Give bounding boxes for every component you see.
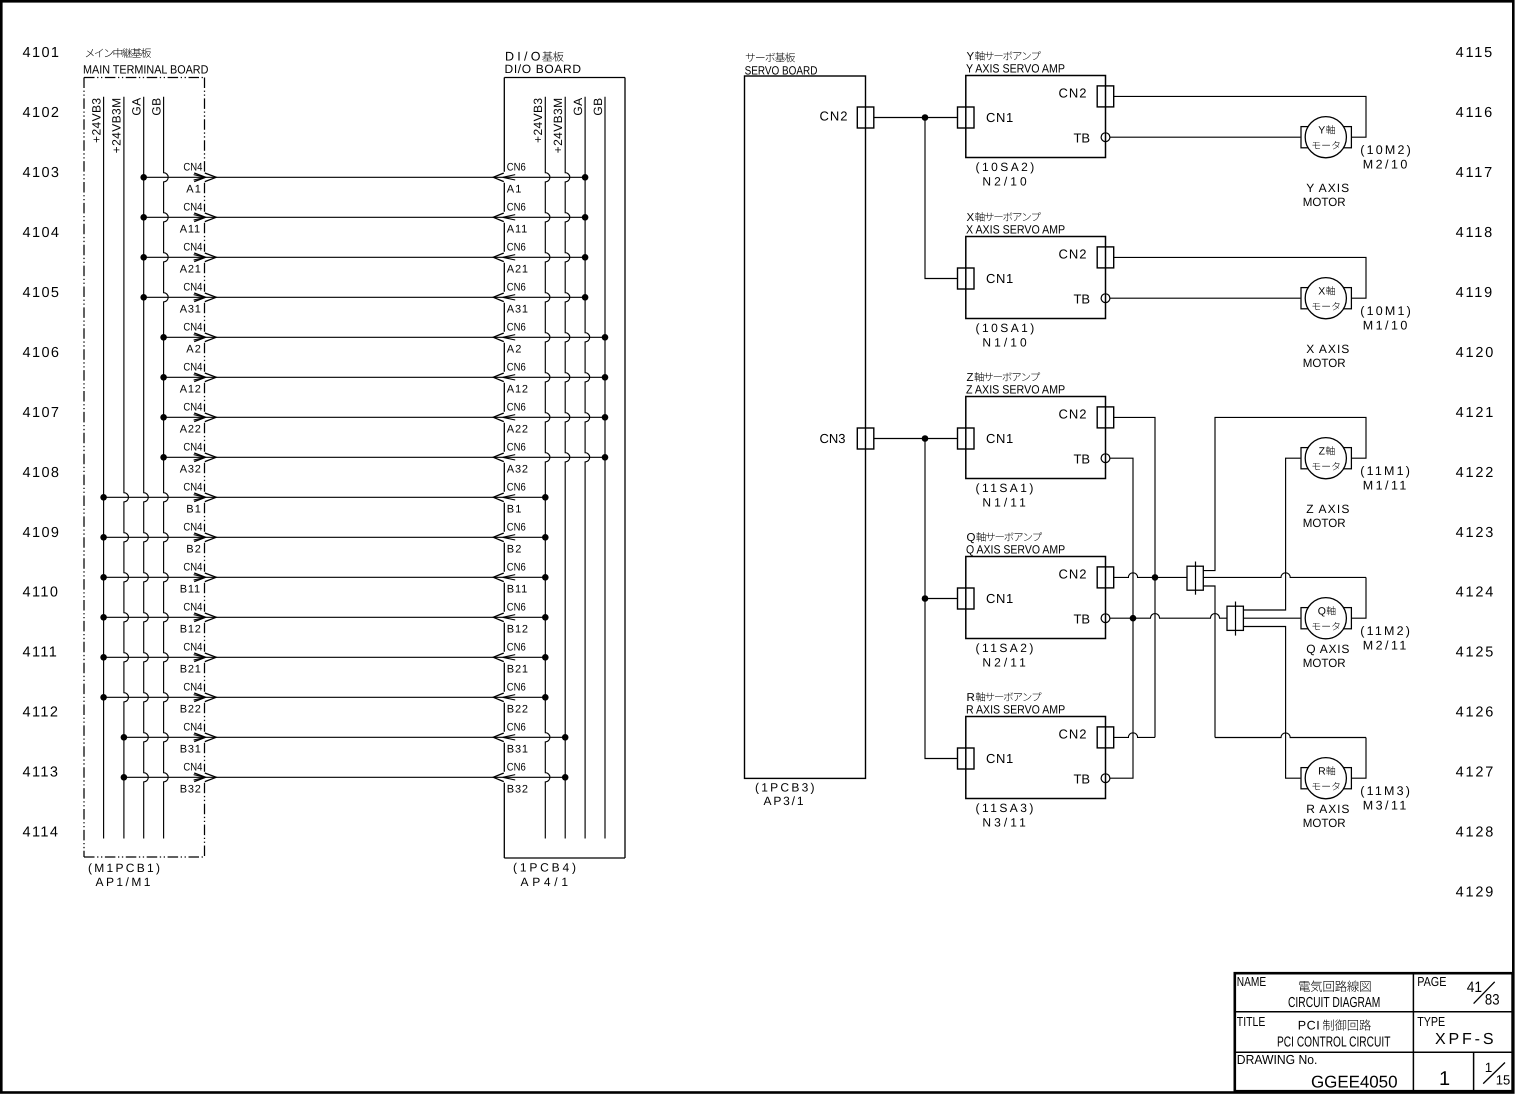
svg-text:B11: B11 [507, 584, 528, 596]
svg-text:4120: 4120 [1456, 345, 1496, 361]
svg-text:CN6: CN6 [507, 682, 526, 694]
svg-text:4113: 4113 [23, 765, 60, 781]
svg-text:4125: 4125 [1456, 645, 1496, 661]
svg-text:MOTOR: MOTOR [1303, 356, 1346, 370]
svg-text:(10M2): (10M2) [1360, 143, 1413, 157]
svg-text:M2/10: M2/10 [1363, 158, 1410, 172]
svg-text:CN1: CN1 [986, 431, 1014, 446]
svg-text:CN4: CN4 [183, 362, 202, 374]
svg-text:M1/11: M1/11 [1363, 479, 1409, 493]
svg-text:CN4: CN4 [183, 562, 202, 574]
svg-text:R: R [1318, 765, 1326, 777]
svg-text:CN2: CN2 [1059, 86, 1088, 101]
svg-text:Q AXIS SERVO AMP: Q AXIS SERVO AMP [966, 542, 1065, 556]
svg-text:CN6: CN6 [507, 282, 526, 294]
svg-text:83: 83 [1485, 991, 1500, 1008]
svg-text:TB: TB [1074, 131, 1090, 146]
svg-text:M3/11: M3/11 [1363, 799, 1409, 813]
svg-text:15: 15 [1496, 1072, 1511, 1087]
svg-text:Y AXIS: Y AXIS [1306, 181, 1350, 195]
svg-text:TB: TB [1074, 452, 1090, 467]
svg-text:MOTOR: MOTOR [1303, 516, 1346, 530]
svg-text:B31: B31 [507, 744, 529, 756]
svg-text:MAIN TERMINAL BOARD: MAIN TERMINAL BOARD [83, 63, 209, 77]
svg-text:CN6: CN6 [507, 442, 526, 454]
svg-text:DRAWING No.: DRAWING No. [1237, 1052, 1318, 1067]
svg-text:AP3/1: AP3/1 [764, 794, 806, 808]
svg-text:Q: Q [1318, 605, 1326, 617]
svg-text:CN6: CN6 [507, 162, 526, 174]
svg-text:4104: 4104 [23, 225, 61, 241]
svg-text:N1/10: N1/10 [982, 335, 1029, 349]
svg-text:4123: 4123 [1456, 525, 1496, 541]
svg-text:CN4: CN4 [183, 322, 202, 334]
svg-text:PCI: PCI [1298, 1019, 1321, 1033]
svg-text:A11: A11 [507, 224, 528, 236]
svg-text:+24VB3M: +24VB3M [110, 98, 124, 154]
svg-text:CN4: CN4 [183, 162, 202, 174]
svg-text:(11SA2): (11SA2) [976, 641, 1036, 655]
svg-text:4108: 4108 [23, 465, 61, 481]
svg-text:B11: B11 [180, 584, 201, 596]
svg-text:GB: GB [149, 98, 163, 116]
svg-text:B2: B2 [507, 544, 523, 556]
svg-text:CN2: CN2 [820, 109, 849, 124]
svg-text:(10SA1): (10SA1) [976, 321, 1037, 335]
svg-text:A11: A11 [180, 224, 201, 236]
svg-text:TYPE: TYPE [1417, 1014, 1445, 1029]
svg-text:X AXIS SERVO AMP: X AXIS SERVO AMP [966, 222, 1065, 236]
svg-text:A1: A1 [186, 184, 202, 196]
svg-text:+24VB3M: +24VB3M [551, 98, 565, 154]
svg-text:4118: 4118 [1456, 225, 1494, 241]
svg-text:B21: B21 [507, 664, 529, 676]
svg-text:CN1: CN1 [986, 751, 1014, 766]
svg-text:B21: B21 [180, 664, 202, 676]
svg-text:X AXIS: X AXIS [1306, 342, 1350, 356]
svg-text:(11SA3): (11SA3) [976, 801, 1036, 815]
svg-text:CN2: CN2 [1059, 567, 1088, 582]
svg-text:4115: 4115 [1456, 45, 1494, 61]
svg-text:A32: A32 [507, 464, 529, 476]
svg-text:MOTOR: MOTOR [1303, 816, 1346, 830]
svg-text:B32: B32 [180, 784, 202, 796]
svg-text:4101: 4101 [23, 45, 61, 61]
svg-text:CN4: CN4 [183, 442, 202, 454]
svg-text:B1: B1 [186, 504, 202, 516]
svg-text:GB: GB [591, 98, 605, 116]
svg-text:+24VB3: +24VB3 [531, 98, 545, 143]
svg-text:CN6: CN6 [507, 402, 526, 414]
svg-text:4126: 4126 [1456, 705, 1496, 721]
svg-text:XPF-S: XPF-S [1435, 1031, 1496, 1048]
svg-text:(11SA1): (11SA1) [976, 481, 1036, 495]
svg-text:PCI CONTROL CIRCUIT: PCI CONTROL CIRCUIT [1277, 1035, 1391, 1051]
svg-text:CN1: CN1 [986, 591, 1014, 606]
svg-text:CN4: CN4 [183, 762, 202, 774]
svg-text:4110: 4110 [23, 585, 60, 601]
svg-text:A2: A2 [186, 344, 202, 356]
svg-text:A22: A22 [507, 424, 529, 436]
svg-text:CN4: CN4 [183, 202, 202, 214]
svg-text:4102: 4102 [23, 105, 61, 121]
svg-text:CN4: CN4 [183, 402, 202, 414]
svg-text:A1: A1 [507, 184, 523, 196]
svg-text:A21: A21 [180, 264, 202, 276]
svg-text:4124: 4124 [1456, 585, 1496, 601]
svg-text:A21: A21 [507, 264, 529, 276]
svg-text:4105: 4105 [23, 285, 61, 301]
svg-text:1: 1 [1485, 1060, 1493, 1075]
svg-text:CN4: CN4 [183, 482, 202, 494]
svg-text:TITLE: TITLE [1237, 1014, 1266, 1029]
svg-text:CN6: CN6 [507, 522, 526, 534]
svg-text:CN4: CN4 [183, 522, 202, 534]
svg-text:(10SA2): (10SA2) [976, 160, 1037, 174]
svg-text:+24VB3: +24VB3 [89, 98, 103, 143]
svg-text:Y AXIS SERVO AMP: Y AXIS SERVO AMP [966, 61, 1065, 75]
svg-text:MOTOR: MOTOR [1303, 656, 1346, 670]
svg-text:CN1: CN1 [986, 271, 1014, 286]
svg-text:N3/11: N3/11 [982, 815, 1028, 829]
svg-text:4116: 4116 [1456, 105, 1494, 121]
svg-text:N1/11: N1/11 [982, 495, 1028, 509]
svg-text:GA: GA [130, 98, 144, 116]
svg-text:4119: 4119 [1456, 285, 1494, 301]
svg-text:Z AXIS: Z AXIS [1306, 502, 1350, 516]
svg-text:PAGE: PAGE [1417, 974, 1446, 989]
svg-text:CN6: CN6 [507, 322, 526, 334]
svg-text:CN6: CN6 [507, 202, 526, 214]
svg-text:4117: 4117 [1456, 165, 1494, 181]
svg-text:CN4: CN4 [183, 682, 202, 694]
svg-text:Q AXIS: Q AXIS [1306, 642, 1350, 656]
svg-text:4106: 4106 [23, 345, 61, 361]
svg-text:4121: 4121 [1456, 405, 1496, 421]
svg-text:CIRCUIT DIAGRAM: CIRCUIT DIAGRAM [1288, 995, 1380, 1011]
svg-text:B22: B22 [180, 704, 202, 716]
svg-text:A31: A31 [180, 304, 202, 316]
svg-text:4129: 4129 [1456, 885, 1496, 901]
svg-text:4111: 4111 [23, 645, 59, 661]
svg-text:R AXIS SERVO AMP: R AXIS SERVO AMP [966, 702, 1065, 716]
svg-text:A12: A12 [507, 384, 529, 396]
svg-text:CN4: CN4 [183, 722, 202, 734]
svg-text:GA: GA [571, 98, 585, 116]
svg-text:4114: 4114 [23, 825, 60, 841]
svg-text:41: 41 [1467, 979, 1482, 996]
svg-text:SERVO BOARD: SERVO BOARD [745, 63, 818, 77]
svg-text:CN6: CN6 [507, 722, 526, 734]
svg-text:CN4: CN4 [183, 642, 202, 654]
svg-text:(11M1): (11M1) [1360, 464, 1412, 478]
svg-text:(M1PCB1): (M1PCB1) [88, 861, 162, 875]
svg-text:CN6: CN6 [507, 762, 526, 774]
svg-text:B12: B12 [180, 624, 202, 636]
svg-text:4128: 4128 [1456, 825, 1496, 841]
svg-text:AP4/1: AP4/1 [521, 875, 572, 889]
svg-text:MOTOR: MOTOR [1303, 195, 1346, 209]
svg-text:4127: 4127 [1456, 765, 1496, 781]
svg-text:N2/11: N2/11 [982, 655, 1028, 669]
svg-text:CN3: CN3 [820, 431, 846, 446]
svg-text:4107: 4107 [23, 405, 61, 421]
svg-text:4109: 4109 [23, 525, 61, 541]
svg-text:4103: 4103 [23, 165, 61, 181]
svg-text:TB: TB [1074, 612, 1090, 627]
svg-text:Z: Z [1319, 445, 1326, 457]
svg-text:B32: B32 [507, 784, 529, 796]
svg-text:(11M3): (11M3) [1360, 784, 1412, 798]
svg-text:CN6: CN6 [507, 602, 526, 614]
svg-text:TB: TB [1074, 292, 1090, 307]
svg-text:CN6: CN6 [507, 562, 526, 574]
svg-text:N2/10: N2/10 [982, 174, 1029, 188]
svg-text:GGEE4050: GGEE4050 [1311, 1073, 1397, 1092]
svg-text:Y: Y [1318, 124, 1325, 136]
svg-text:AP1/M1: AP1/M1 [96, 875, 153, 889]
svg-text:(1PCB3): (1PCB3) [755, 781, 817, 795]
svg-text:X: X [1318, 285, 1325, 297]
svg-text:A12: A12 [180, 384, 202, 396]
svg-text:B22: B22 [507, 704, 529, 716]
svg-text:CN4: CN4 [183, 242, 202, 254]
svg-text:A31: A31 [507, 304, 529, 316]
svg-text:1: 1 [1439, 1068, 1450, 1090]
svg-text:4122: 4122 [1456, 465, 1496, 481]
svg-text:CN4: CN4 [183, 602, 202, 614]
svg-text:(11M2): (11M2) [1360, 624, 1412, 638]
svg-text:(10M1): (10M1) [1360, 304, 1413, 318]
svg-text:A32: A32 [180, 464, 202, 476]
svg-text:CN2: CN2 [1059, 247, 1088, 262]
svg-text:B2: B2 [186, 544, 202, 556]
svg-text:A22: A22 [180, 424, 202, 436]
svg-text:A2: A2 [507, 344, 523, 356]
svg-text:(1PCB4): (1PCB4) [513, 861, 579, 875]
svg-text:CN6: CN6 [507, 242, 526, 254]
svg-text:B31: B31 [180, 744, 202, 756]
svg-text:TB: TB [1074, 772, 1090, 787]
svg-text:DI/O BOARD: DI/O BOARD [505, 62, 582, 76]
svg-text:Z AXIS SERVO AMP: Z AXIS SERVO AMP [966, 382, 1065, 396]
svg-text:CN6: CN6 [507, 362, 526, 374]
svg-text:R AXIS: R AXIS [1306, 802, 1350, 816]
svg-text:CN6: CN6 [507, 482, 526, 494]
svg-text:B1: B1 [507, 504, 523, 516]
svg-text:M1/10: M1/10 [1363, 319, 1410, 333]
svg-text:B12: B12 [507, 624, 529, 636]
svg-text:CN2: CN2 [1059, 727, 1088, 742]
svg-text:CN2: CN2 [1059, 407, 1088, 422]
svg-text:NAME: NAME [1237, 974, 1267, 989]
svg-text:CN1: CN1 [986, 110, 1014, 125]
svg-text:4112: 4112 [23, 705, 60, 721]
svg-text:CN4: CN4 [183, 282, 202, 294]
svg-text:M2/11: M2/11 [1363, 639, 1409, 653]
svg-text:CN6: CN6 [507, 642, 526, 654]
